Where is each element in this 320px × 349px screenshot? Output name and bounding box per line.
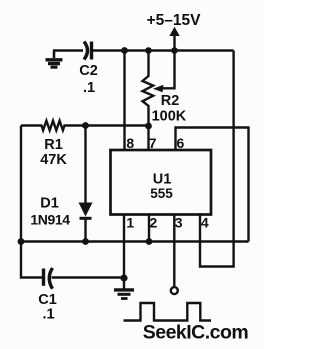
wire pin 1 down to ground node (123, 215, 125, 279)
resistor R1 with wires: left rail corner to pin7 node (21, 121, 149, 131)
svg-text:3: 3 (175, 214, 183, 230)
wire GND1 to C2 left plate (53, 49, 83, 51)
op-amp U1 (555 timer IC box) (111, 150, 212, 215)
svg-text:47K: 47K (40, 152, 67, 168)
node junction dot (D1 bottom / bus) (82, 238, 89, 245)
capacitor C1 (44, 268, 53, 289)
wire pin 3 down to output terminal (173, 215, 175, 288)
node output terminal (open circle) (171, 287, 178, 294)
diode D1 (79, 126, 93, 242)
wire rail to pin 8 (vertical x=124.5) (123, 51, 125, 151)
node junction dot (rail / R2 top) (145, 47, 152, 54)
wire left rail (x=21) down to C1 (21, 126, 43, 278)
ground GND2 (bottom ground symbol) (114, 278, 134, 299)
svg-text:1N914: 1N914 (30, 212, 70, 228)
svg-text:.1: .1 (42, 307, 54, 323)
svg-text:7: 7 (149, 135, 157, 151)
svg-text:D1: D1 (40, 196, 59, 212)
node junction dot (rail / pin8 branch) (121, 47, 128, 54)
wire trigger/threshold bus y=241.5 (21, 240, 249, 242)
svg-text:2: 2 (150, 214, 158, 230)
resistor R2 (potentiometer body) with wires to rail and pin 7 (143, 51, 154, 151)
wire C1 to ground node (52, 276, 125, 278)
node junction dot (pin 2 / bus) (146, 238, 153, 245)
svg-text:SeekIC.com: SeekIC.com (143, 321, 249, 343)
waveform (output square pulses) (124, 303, 212, 321)
ground GND1 (top-left ground symbol) (46, 51, 63, 68)
svg-text:+5–15V: +5–15V (147, 12, 202, 29)
svg-text:100K: 100K (152, 109, 187, 125)
node junction dot (R1 right / D1 top) (82, 122, 89, 129)
wire pin 6 up over to right vertical and down to bus (176, 128, 249, 242)
node junction dot (pin1 / C1 / ground) (120, 274, 127, 281)
wiper arrow of R2 (from supply rail) (153, 51, 175, 93)
svg-text:C1: C1 (38, 292, 57, 308)
node junction dot (rail / wiper branch) (171, 47, 178, 54)
svg-text:.1: .1 (83, 80, 95, 96)
svg-text:4: 4 (201, 214, 209, 230)
node junction dot (left rail / bus) (18, 238, 25, 245)
svg-text:1: 1 (126, 214, 134, 230)
svg-text:U1: U1 (153, 172, 172, 188)
svg-text:R1: R1 (44, 137, 63, 153)
svg-text:C2: C2 (79, 63, 98, 79)
svg-text:555: 555 (150, 186, 173, 201)
wire top supply rail y=50.5 from C2 to right vertical (93, 49, 234, 51)
svg-text:6: 6 (177, 135, 185, 151)
node junction dot (R1 / R2 bottom / pin 7) (145, 123, 152, 130)
wire pin 4 loop to supply rail (200, 51, 234, 267)
wire pin 2 down to bus (148, 215, 150, 242)
svg-text:8: 8 (126, 135, 134, 151)
capacitor C2 (84, 42, 92, 60)
power supply arrow (169, 27, 179, 51)
svg-text:R2: R2 (161, 93, 180, 109)
